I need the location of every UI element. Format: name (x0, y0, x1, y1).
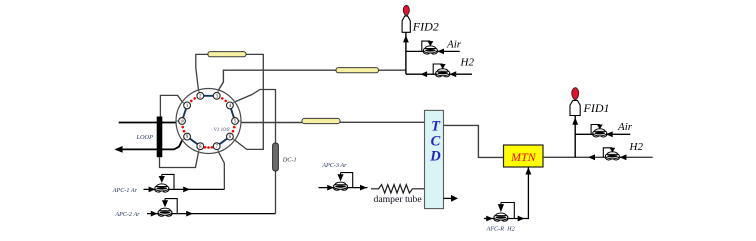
wire FID2 vertical (405, 32, 407, 74)
arrow APC-3 out (360, 185, 367, 191)
arrow vent left (114, 146, 122, 153)
valve port 10 (179, 118, 186, 125)
wire port 2 to column COL1 left (196, 54, 208, 90)
svg-text:Air: Air (446, 38, 462, 50)
svg-text:LOOP: LOOP (136, 134, 154, 141)
wire DC-1 bottom to APC-2 line (275, 170, 277, 214)
valve port 10 stub (176, 120, 182, 122)
valve rotor dotted connections (red) (190, 100, 193, 103)
wire FID2 H2 branch (406, 73, 472, 75)
valve port 4 (227, 102, 234, 109)
wire APC-3 line (319, 187, 368, 189)
valve port 6 stub (230, 137, 235, 141)
wire port 5 to column COL3 (241, 122, 302, 124)
valve port 3 stub (217, 90, 219, 96)
wire APC-2 line (147, 213, 276, 215)
valve port 4 stub (230, 102, 235, 106)
svg-text:H2: H2 (629, 141, 644, 153)
valve port 1 (184, 102, 191, 109)
arrow APC-1 out (183, 187, 190, 193)
arrow up into FID1 (572, 117, 578, 125)
valve port 7 stub (217, 146, 219, 152)
arrow after Air regulator (FID1) (606, 131, 613, 137)
arrow up into FID2 (403, 35, 409, 42)
arrow after H2 regulator (FID2) (449, 71, 456, 77)
wire FID2 air branch (406, 50, 460, 52)
wire APC-1 line (144, 188, 225, 190)
valve port 8 (197, 143, 204, 150)
wire FID1 air branch (575, 133, 630, 135)
AFC-R regulator (494, 219, 501, 221)
svg-text:Air: Air (617, 121, 633, 133)
svg-text:H2: H2 (460, 57, 475, 69)
svg-text:APC-1 Ar: APC-1 Ar (112, 188, 138, 194)
svg-text:FID1: FID1 (583, 101, 610, 115)
damper tube zigzag (371, 185, 425, 193)
valve port 2 stub (199, 90, 201, 96)
wire COL2 to FID2 (379, 69, 407, 71)
svg-text:MTN: MTN (510, 150, 537, 164)
valve port 1 stub (182, 102, 187, 106)
svg-text:C: C (431, 134, 441, 150)
wire vent from port 9 with arrow (116, 140, 182, 149)
svg-text:D: D (429, 149, 441, 165)
arrow into MTN bottom (525, 167, 531, 174)
arrow after Air regulator (FID2) (437, 49, 444, 55)
APC-3 regulator (333, 188, 340, 190)
column COL3 (302, 118, 340, 123)
wire COL3 to TCD (340, 121, 425, 123)
svg-text:10: 10 (180, 120, 184, 124)
arrow after H2 regulator (620, 154, 627, 160)
svg-text:AFC-R H2: AFC-R H2 (486, 225, 515, 232)
detector TCD box (425, 110, 444, 208)
valve port 9 stub (182, 137, 187, 141)
arrow into AFC-R (486, 216, 493, 222)
arrow AFC-R out (518, 216, 525, 222)
FID2 flame (403, 5, 409, 16)
column DC-1 (273, 143, 279, 171)
svg-text:V1 10/8: V1 10/8 (214, 128, 230, 133)
column COL2 (336, 68, 379, 73)
loop tube wire port 1 side (160, 95, 182, 118)
valve port 6 (227, 133, 234, 140)
APC-2 regulator (158, 214, 165, 216)
wire port 4 to column DC-1 top (235, 90, 276, 144)
svg-text:APC-3 Ar: APC-3 Ar (321, 163, 347, 169)
arrow into APC-3 (327, 185, 334, 191)
FID1 flame (572, 88, 579, 100)
valve port 5 stub (235, 120, 241, 122)
valve port 3 (213, 92, 220, 99)
wire port 7 down to APC-1 line (219, 152, 225, 190)
valve rotor solid connections (182, 105, 187, 121)
column COL1 (208, 52, 246, 57)
svg-text:T: T (431, 119, 441, 135)
FID1 Air regulator (593, 135, 600, 137)
wire AFC-R line (484, 167, 529, 218)
valve port 7 (213, 143, 220, 150)
valve port 9 (184, 133, 191, 140)
sample loop bar (157, 117, 163, 158)
svg-text:DC-1: DC-1 (282, 157, 297, 164)
reactor MTN box (504, 145, 544, 167)
detector FID2 body (402, 16, 410, 32)
valve port 2 (197, 92, 204, 99)
valve port 8 stub (199, 146, 201, 152)
svg-text:FID2: FID2 (412, 20, 439, 34)
FID2 Air regulator (423, 52, 430, 54)
APC-1 regulator (155, 190, 162, 192)
arrow on H2 line near FID1 junction (588, 154, 595, 160)
valve port 5 (232, 118, 239, 125)
FID1 H2 regulator (605, 158, 612, 160)
detector FID1 body (570, 100, 580, 115)
wire sample-in to port 10 (119, 122, 176, 124)
arrow into APC-1 (149, 187, 156, 193)
wire FID1 vertical (574, 116, 576, 158)
arrow into APC-2 (151, 211, 158, 217)
wire TCD vent with arrow (444, 197, 452, 199)
arrow on H2 branch near junction (FID2) (420, 71, 427, 77)
arrow APC-2 out (186, 211, 193, 217)
svg-text:damper tube: damper tube (374, 194, 422, 205)
valve V1 outer circle (176, 89, 241, 154)
wire port 6 to column COL1 right (235, 54, 263, 149)
svg-text:APC-2 Ar: APC-2 Ar (114, 212, 140, 218)
wire MTN out to FID1/H2 (543, 156, 653, 158)
wire port 3 to column COL2 left (219, 70, 337, 90)
wire TCD out to MTN (444, 125, 504, 157)
FID2 H2 regulator (436, 75, 443, 77)
loop tube wire port 8 side (160, 152, 199, 168)
